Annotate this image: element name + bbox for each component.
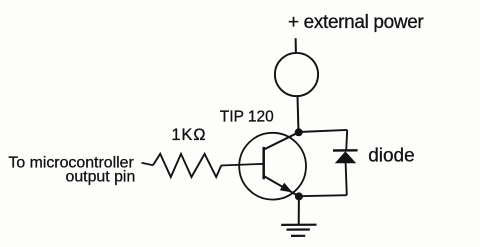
wire: stub after label [142, 163, 154, 165]
wire: diode branch bottom lead [346, 163, 347, 196]
transistor Q1 collector stroke [264, 132, 299, 149]
ground bar 2 [287, 228, 310, 230]
node: collector junction dot [295, 128, 303, 136]
transistor Q1 emitter arrowhead [280, 183, 293, 193]
power connector circle [275, 53, 318, 96]
wire: collector node to diode branch (top) [299, 130, 348, 132]
transistor Q1 base bar [262, 147, 265, 179]
wire: supply stub above power circle [295, 38, 297, 53]
diode D1 cathode bar [333, 149, 358, 152]
wire: base lead into transistor [221, 164, 264, 166]
transistor Q1 emitter stroke [264, 176, 299, 196]
wire: emitter node to diode branch (bottom) [299, 195, 347, 196]
ground bar 1 [281, 224, 316, 226]
wire: diode branch top lead [346, 130, 347, 151]
svg-text:diode: diode [368, 146, 415, 167]
resistor R1 zigzag [153, 154, 221, 177]
svg-text:+ external power: + external power [288, 12, 424, 33]
svg-text:output pin: output pin [65, 169, 135, 186]
svg-text:TIP 120: TIP 120 [220, 109, 274, 126]
ground bar 3 [291, 235, 305, 237]
node: emitter junction dot [295, 192, 303, 200]
diode D1 triangle [335, 151, 356, 163]
ground lead wire [298, 196, 300, 225]
transistor Q1 circle [239, 133, 306, 200]
svg-text:1KΩ: 1KΩ [172, 126, 207, 144]
wire: power circle to collector node [298, 96, 299, 131]
